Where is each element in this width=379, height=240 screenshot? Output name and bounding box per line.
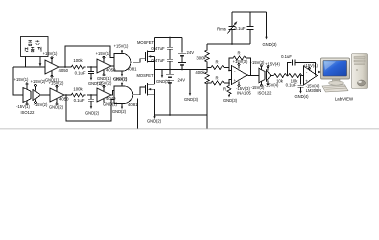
node N1 junction: [287, 75, 289, 77]
wire over-loop row1 to AND gate: [65, 46, 114, 67]
wire AND1 output to M1 gate: [133, 59, 146, 62]
svg-text:INA105: INA105: [237, 91, 251, 96]
wire buffer U2 output to AND1: [111, 65, 114, 67]
svg-text:GND(2): GND(2): [85, 111, 100, 116]
svg-text:0.1uF: 0.1uF: [75, 71, 86, 76]
wire to buffer U6: [87, 94, 97, 96]
svg-text:MOSFET: MOSFET: [136, 73, 154, 78]
svg-text:+15V(2): +15V(2): [49, 80, 64, 85]
svg-text:R: R: [223, 87, 226, 92]
wire under-loop row2 to AND2: [66, 95, 114, 121]
wire M2 source down to bottom rail: [154, 94, 156, 115]
svg-text:400k: 400k: [195, 70, 205, 75]
op-amp U10 LM308N: [303, 63, 321, 93]
wire M1 source to mid rail: [154, 61, 156, 69]
capacitor 0.1uF row2: [74, 95, 100, 116]
shield partition right: [206, 115, 208, 129]
svg-text:0.1uF: 0.1uF: [286, 83, 297, 88]
svg-text:MOSFET: MOSFET: [137, 40, 155, 45]
svg-text:LabVIEW: LabVIEW: [335, 97, 354, 102]
resistor R to ground INA: [223, 83, 238, 103]
svg-text:+15V(4): +15V(4): [265, 61, 280, 66]
svg-text:100k: 100k: [73, 58, 83, 63]
svg-text:100k: 100k: [73, 87, 83, 92]
ground GND(3) stub left: [156, 70, 171, 84]
svg-text:24V: 24V: [178, 78, 186, 83]
svg-text:4050: 4050: [59, 97, 69, 102]
node divider mid junction: [206, 69, 208, 71]
wire output to PC with arrow: [318, 71, 322, 76]
buffer U1 4050: [43, 51, 69, 83]
node cap chain top junction: [169, 37, 171, 39]
capacitor 0.47uF lower: [151, 49, 173, 69]
svg-text:GND(3): GND(3): [262, 42, 277, 47]
wire buffer U5 output: [64, 94, 70, 96]
node sample rail junction: [231, 43, 233, 45]
wire INA output: [248, 75, 260, 77]
node battery bottom junction: [169, 114, 171, 116]
variable capacitor sample: [217, 12, 237, 44]
svg-text:GND(3): GND(3): [184, 97, 199, 102]
svg-text:+15V(1): +15V(1): [14, 77, 29, 82]
svg-text:4050: 4050: [106, 68, 116, 73]
capacitor 0.1uF row1: [75, 67, 103, 86]
node C junction: [65, 94, 67, 96]
wire ISO122 output to buffer U5: [41, 94, 51, 96]
svg-text:+15V(1): +15V(1): [96, 51, 111, 56]
svg-text:+15V(3): +15V(3): [250, 60, 265, 65]
svg-text:ISO122: ISO122: [258, 90, 273, 95]
svg-text:4049: 4049: [106, 96, 116, 101]
svg-text:-15V(3): -15V(3): [251, 85, 265, 90]
wire AND2 output to M2 gate: [133, 87, 146, 95]
svg-text:GND(2): GND(2): [103, 102, 118, 107]
wire buffer U1 output: [59, 66, 70, 68]
resistor 10k second: [289, 74, 304, 84]
ground GND(3) sample: [262, 12, 277, 47]
svg-text:+15V(2): +15V(2): [97, 81, 112, 86]
resistor 10k input: [274, 74, 289, 84]
resistor R input upper INA: [207, 60, 229, 70]
svg-text:+15V(2): +15V(2): [113, 77, 128, 82]
svg-text:GND(2): GND(2): [112, 109, 127, 114]
ISO122 U4 isolation amp: [14, 77, 48, 115]
svg-text:0.1uF: 0.1uF: [74, 98, 85, 103]
node D junction: [90, 94, 92, 96]
svg-text:0.47uF: 0.47uF: [151, 58, 165, 63]
buffer U2 4050: [96, 51, 116, 81]
AND gate U7 4081: [112, 77, 138, 115]
capacitor 0.1uF sample: [235, 12, 254, 44]
ISO122 U9 isolation amp: [250, 60, 281, 96]
node B junction: [90, 66, 92, 68]
buffer U5 4050: [49, 80, 69, 109]
transistor M1 MOSFET upper: [137, 38, 155, 63]
resistor 100k row2: [70, 87, 85, 97]
node N2 junction: [300, 75, 302, 77]
capacitor 0.1uF to ground: [286, 76, 310, 100]
wire left drop to ISO122 input: [13, 67, 23, 95]
svg-text:0.47uF: 0.47uF: [151, 46, 165, 51]
svg-text:GND(4): GND(4): [294, 94, 309, 99]
ground GND(3) stub right: [184, 70, 199, 103]
shield bottom border: [0, 128, 379, 130]
capacitor 0.1uF feedback: [281, 54, 315, 76]
Labview PC icon: [321, 54, 368, 102]
wire buffer U6 output to AND2: [111, 91, 114, 96]
wire top rail: [155, 37, 183, 39]
svg-text:4050: 4050: [59, 68, 69, 73]
node cap chain mid junction: [169, 69, 171, 71]
svg-text:0.1uF: 0.1uF: [281, 54, 292, 59]
svg-text:4081: 4081: [128, 102, 138, 107]
wire bottom rail: [155, 114, 208, 116]
battery 24V lower: [166, 70, 185, 116]
svg-text:-15V(2): -15V(2): [34, 102, 48, 107]
wire ISO122 output: [271, 75, 274, 77]
transistor M2 MOSFET lower: [136, 70, 154, 96]
resistor 400k divider lower: [195, 70, 209, 116]
svg-text:R: R: [215, 60, 218, 65]
svg-text:GND(2): GND(2): [147, 118, 162, 123]
svg-text:+: +: [233, 78, 236, 83]
node INA plus junction: [228, 82, 230, 84]
ground GND(2) stub bottom: [147, 115, 162, 123]
svg-text:300k: 300k: [196, 56, 206, 61]
svg-text:4081: 4081: [127, 67, 137, 72]
svg-text:ISO122: ISO122: [21, 110, 36, 115]
node INA feedback junction: [228, 70, 230, 72]
svg-text:+15V(4): +15V(4): [303, 63, 318, 68]
resistor 300k divider upper: [196, 44, 209, 70]
function generator box: [21, 37, 49, 57]
wire sample rail lower: [207, 43, 250, 45]
svg-text:+15V(3): +15V(3): [233, 59, 248, 64]
svg-text:+15V(2): +15V(2): [31, 79, 46, 84]
node battery mid junction: [181, 69, 183, 71]
battery 24V upper: [178, 38, 194, 70]
resistor R feedback INA: [229, 51, 251, 76]
wire sample rail upper: [232, 11, 267, 13]
svg-text:10k: 10k: [276, 78, 284, 83]
svg-text:0.1uF: 0.1uF: [235, 26, 246, 31]
mid rail GND(3) node: [155, 69, 208, 71]
arrow box right pin down to wire: [39, 57, 42, 67]
svg-text:+15V(1): +15V(1): [114, 44, 129, 49]
wire to buffer U2: [87, 66, 97, 68]
svg-text:GND(2): GND(2): [49, 105, 64, 110]
svg-text:+15V(1): +15V(1): [43, 51, 58, 56]
svg-text:LM308N: LM308N: [306, 88, 322, 93]
svg-text:Rms: Rms: [217, 27, 226, 32]
svg-text:R: R: [215, 76, 218, 81]
svg-text:GND(3): GND(3): [223, 98, 238, 103]
capacitor 0.47uF upper: [151, 38, 173, 52]
op-amp U8 INA105: [232, 59, 252, 96]
wire signal rail row1: [13, 66, 45, 68]
wire INA plus input: [229, 80, 232, 84]
svg-text:R: R: [237, 51, 240, 56]
shield partition left: [137, 99, 139, 129]
buffer U6 4049: [97, 81, 118, 107]
wire INA minus input: [229, 68, 232, 71]
node A junction: [64, 66, 66, 68]
svg-text:24V: 24V: [187, 50, 195, 55]
resistor R input lower INA: [207, 76, 229, 86]
wire box left pin down: [25, 57, 27, 68]
svg-text:-15V(1): -15V(1): [16, 104, 30, 109]
resistor 100k row1: [70, 58, 85, 69]
AND gate U3 4081: [113, 44, 137, 82]
